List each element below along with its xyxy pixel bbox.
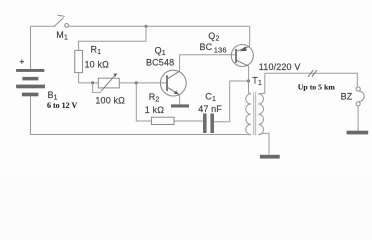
node Q1 base (135, 81, 138, 84)
line break marks (308, 70, 317, 77)
wire Q1 collector to Q2 base (180, 55, 236, 71)
svg-text:10 kΩ: 10 kΩ (85, 60, 110, 70)
ground (Q1 emitter) (171, 104, 189, 107)
wire Q2 emitter to top rail (249, 26, 251, 46)
wire R1 feed (79, 26, 146, 50)
svg-text:6 to 12 V: 6 to 12 V (47, 101, 78, 110)
wire battery top to rail (31, 26, 55, 69)
resistor R2 (152, 117, 175, 124)
svg-text:110/220 V: 110/220 V (259, 62, 301, 72)
T1 primary winding (246, 94, 251, 135)
wire R2 to C1 (174, 120, 203, 122)
wire base node to R2 (136, 83, 151, 121)
wire pot to base node (119, 82, 167, 84)
transformer T1 (246, 73, 269, 154)
wire R1 bottom to potentiometer (79, 73, 99, 83)
potentiometer 100 kOhm (93, 73, 120, 92)
T1 secondary top lead (258, 73, 264, 94)
node pot left / wiper tie (91, 81, 94, 84)
wire top rail (69, 25, 250, 27)
T1 secondary bottom lead (258, 133, 269, 154)
svg-text:Up to 5 km: Up to 5 km (298, 82, 336, 91)
battery B1 (16, 69, 45, 96)
ground (BZ) (347, 131, 369, 135)
T1 core (253, 92, 255, 135)
wire Q1 emitter to ground (179, 95, 181, 105)
node top rail / R1 branch (144, 25, 147, 28)
svg-text:1 kΩ: 1 kΩ (145, 105, 164, 115)
capacitor C1 (203, 114, 214, 134)
ground (T1 secondary) (260, 155, 280, 159)
wire Q2 collector to T1 (248, 66, 250, 81)
T1 secondary winding (258, 94, 263, 135)
svg-text:BC548: BC548 (146, 57, 174, 67)
wire bottom rail (31, 96, 248, 134)
resistor R1 (75, 50, 83, 72)
node T1 primary top (247, 79, 250, 82)
svg-text:47 nF: 47 nF (198, 104, 222, 114)
wire C1 to T1 top node (feedback) (214, 81, 249, 122)
wire line 110/220 V (265, 73, 358, 87)
T1 primary bottom connect (248, 134, 251, 136)
battery plus sign (20, 59, 24, 63)
transistor Q2 (231, 45, 253, 67)
T1 primary lead (249, 81, 251, 94)
svg-text:100 kΩ: 100 kΩ (95, 96, 125, 106)
svg-text:BZ: BZ (341, 92, 353, 102)
buzzer BZ (356, 87, 364, 106)
transistor Q1 (160, 70, 186, 96)
wire BZ to ground (357, 106, 359, 131)
switch M1 (54, 15, 69, 27)
